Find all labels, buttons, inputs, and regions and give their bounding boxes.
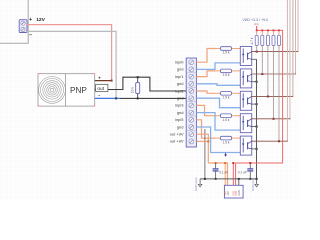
- svg-text:+: +: [98, 76, 101, 81]
- svg-text:12V: 12V: [36, 17, 45, 23]
- svg-text:4.7 k: 4.7 k: [250, 37, 254, 44]
- svg-text:GND (int): GND (int): [251, 178, 255, 191]
- svg-text:gnd: gnd: [177, 81, 184, 86]
- svg-text:(int): (int): [254, 22, 259, 26]
- svg-text:gnd: gnd: [177, 67, 184, 72]
- svg-text:gnd: gnd: [177, 124, 184, 129]
- svg-text:GND: GND: [237, 190, 241, 196]
- svg-text:out +9V: out +9V: [170, 132, 184, 137]
- svg-text:0.1 uF: 0.1 uF: [219, 171, 228, 175]
- svg-text:inp/3: inp/3: [175, 103, 184, 108]
- svg-text:1.5 k: 1.5 k: [223, 118, 230, 122]
- svg-text:–: –: [29, 32, 32, 38]
- svg-text:out: out: [97, 86, 104, 92]
- svg-text:inp/5: inp/5: [175, 117, 184, 122]
- svg-text:1.5 k: 1.5 k: [223, 140, 230, 144]
- svg-text:gnd: gnd: [177, 96, 184, 101]
- svg-text:-: -: [98, 92, 100, 98]
- svg-text:1.5 k: 1.5 k: [223, 73, 230, 77]
- svg-text:PNP: PNP: [70, 86, 87, 95]
- svg-text:1.5 k: 1.5 k: [223, 96, 230, 100]
- svg-text:+: +: [29, 17, 32, 23]
- svg-text:inp/2: inp/2: [175, 88, 184, 93]
- svg-text:0.1 uF: 0.1 uF: [238, 171, 247, 175]
- svg-text:+9V: +9V: [226, 191, 230, 196]
- svg-text:GND (ext): GND (ext): [194, 177, 198, 191]
- svg-text:inp/0: inp/0: [175, 60, 184, 65]
- svg-text:inp/1: inp/1: [175, 74, 184, 79]
- svg-text:10 k: 10 k: [131, 87, 135, 94]
- svg-text:gnd: gnd: [177, 110, 184, 115]
- svg-text:1.5 k: 1.5 k: [223, 51, 230, 55]
- svg-text:out +9V: out +9V: [170, 139, 184, 144]
